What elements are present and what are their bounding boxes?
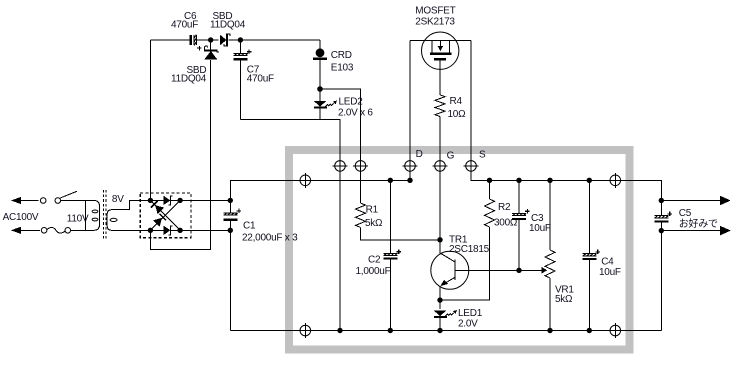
wire C7 stem	[239, 40, 241, 120]
label G	[447, 151, 455, 162]
node bridge BR	[177, 228, 182, 233]
wire bridge diagonal TL-BR	[150, 200, 180, 230]
node C3-rail junction	[516, 178, 521, 183]
resistor R1	[356, 203, 366, 227]
label 11DQ04 (lower)	[171, 74, 207, 85]
wire C1 column	[230, 180, 305, 330]
wire secondary 8V tap to bridge	[117, 200, 150, 209]
label C6 value	[171, 20, 198, 31]
switch SW (top)	[40, 191, 76, 203]
capacitor C5	[654, 212, 672, 222]
node emitter-R2 junction	[437, 297, 442, 302]
wire bridge BL down and right to SBD return	[150, 60, 210, 250]
terminal 2	[353, 161, 368, 172]
node bottom rail terminal1	[337, 328, 342, 333]
diode bridge top	[164, 196, 173, 205]
label AC100V	[3, 212, 39, 223]
svg-text:R1: R1	[366, 204, 379, 215]
svg-text:2SC1815: 2SC1815	[449, 244, 490, 255]
output arrow bottom	[720, 226, 731, 236]
diode SBD D2 (horizontal)	[220, 34, 230, 47]
node CRD-LED2 junction	[317, 86, 323, 92]
svg-text:10uF: 10uF	[599, 267, 621, 278]
node doubler junction 1	[208, 37, 213, 42]
svg-text:22,000uF x 3: 22,000uF x 3	[242, 233, 298, 244]
svg-text:8V: 8V	[112, 194, 124, 205]
node D-rail junction	[407, 178, 412, 183]
node C2-rail junction	[388, 178, 393, 183]
label C3 value	[529, 223, 551, 234]
wire TR1 base to VR1 wiper	[455, 267, 547, 274]
wire AC bottom lead	[20, 229, 40, 231]
terminal right top	[610, 173, 621, 188]
fuse F (bottom)	[41, 228, 70, 234]
node bridge BL	[148, 228, 153, 233]
label C6	[184, 11, 197, 22]
svg-text:C1: C1	[243, 221, 256, 232]
svg-text:G: G	[447, 151, 455, 162]
capacitor C6	[191, 35, 202, 51]
capacitor C7	[234, 50, 252, 60]
svg-text:C5: C5	[679, 208, 692, 219]
diode bridge diagonal lower	[153, 214, 166, 227]
node R1-gate junction	[437, 237, 442, 242]
svg-text:LED2: LED2	[339, 97, 364, 108]
label C7 value	[247, 74, 274, 85]
terminal right bottom	[610, 323, 621, 338]
svg-text:D: D	[416, 149, 423, 160]
wire fuse to transformer	[71, 229, 86, 231]
label LED1 value	[458, 319, 478, 330]
svg-text:11DQ04: 11DQ04	[210, 20, 246, 31]
diode SBD D1 (vertical, pointing up)	[204, 46, 219, 60]
label CRD	[331, 50, 352, 61]
label LED2	[339, 97, 364, 108]
label C5 note	[679, 218, 718, 230]
wire C3 column	[518, 180, 520, 270]
label R1 value	[365, 218, 383, 229]
node C5 bottom	[659, 228, 664, 233]
wire MOSFET drain down to D	[409, 41, 411, 181]
transformer T1 core	[104, 190, 106, 241]
label SBD (top)	[213, 11, 233, 22]
label TR1	[449, 234, 468, 245]
label C1	[243, 221, 256, 232]
node C1 top	[228, 198, 233, 203]
svg-text:C2: C2	[368, 254, 381, 265]
node bottom rail C4	[587, 328, 592, 333]
bridge rectifier dashed box	[140, 193, 191, 238]
wire CRD stem	[319, 40, 321, 49]
wire output bottom lead	[661, 230, 720, 232]
node bottom rail LED1	[437, 328, 442, 333]
wire MOSFET source down to S	[471, 41, 615, 181]
label R4	[450, 96, 463, 107]
label 2SC1815	[449, 244, 490, 255]
transformer T1 primary winding	[85, 201, 99, 231]
label 11DQ04 (top)	[210, 20, 246, 31]
wire output top lead	[661, 200, 720, 202]
label LED1	[458, 308, 483, 319]
AC input arrow top	[11, 197, 21, 204]
MOSFET U1 2SK2173	[410, 32, 471, 95]
label C5	[679, 208, 692, 219]
svg-text:470uF: 470uF	[247, 74, 274, 85]
node bridge TR	[177, 198, 182, 203]
wire switch to transformer	[61, 200, 86, 202]
label C1 value	[242, 233, 298, 244]
node VR1-rail junction	[547, 178, 552, 183]
label VR1 value	[555, 294, 573, 305]
terminal D	[403, 161, 418, 172]
label C4 value	[599, 267, 621, 278]
svg-text:5kΩ: 5kΩ	[365, 218, 383, 229]
wire bridge bottom segment	[150, 229, 230, 231]
label 2SK2173	[415, 16, 455, 27]
svg-text:1,000uF: 1,000uF	[356, 266, 391, 277]
wire C2 column	[389, 180, 391, 330]
node doubler junction 2	[238, 37, 243, 42]
wire SBD D1 stem	[210, 40, 212, 50]
capacitor C3	[512, 209, 530, 219]
wire bridge diagonal BL-TR	[150, 200, 180, 230]
amplifier block gray frame	[289, 150, 630, 350]
label 110V	[67, 214, 89, 225]
label E103	[331, 63, 354, 74]
wire R1 bottom to gate column	[361, 227, 441, 239]
svg-text:E103: E103	[331, 63, 354, 74]
capacitor C4	[582, 250, 600, 259]
node C1 bottom	[228, 228, 233, 233]
label C3	[531, 213, 544, 224]
terminal S	[464, 161, 479, 172]
wire doubler top row	[150, 39, 320, 41]
node C5 top	[659, 198, 664, 203]
wire secondary bottom to bridge	[117, 229, 150, 231]
label 8V	[112, 194, 124, 205]
node C4-rail junction	[587, 178, 592, 183]
diode bridge bottom	[164, 226, 173, 235]
wire junction to terminal 2	[320, 89, 361, 203]
svg-text:11DQ04: 11DQ04	[171, 74, 207, 85]
node bottom rail C2	[388, 328, 393, 333]
svg-text:CRD: CRD	[331, 50, 352, 61]
wire bottom rail left feed	[230, 330, 305, 332]
wire bridge top segment	[150, 199, 230, 201]
svg-text:C4: C4	[601, 256, 614, 267]
wire bridge TL up to doubler row	[149, 40, 151, 200]
svg-text:AC100V: AC100V	[3, 212, 39, 223]
terminal G	[433, 161, 448, 172]
label LED2 value	[338, 107, 373, 118]
capacitor C2	[383, 250, 401, 259]
wire bottom rail	[305, 330, 615, 332]
transistor TR1 2SC1815	[431, 240, 469, 309]
label R4 value	[448, 109, 467, 120]
wire output column C5	[615, 180, 661, 330]
label R2 value	[494, 217, 518, 228]
svg-text:S: S	[479, 150, 486, 161]
node bridge TL	[148, 198, 153, 203]
node bottom rail VR1	[547, 328, 552, 333]
node C3-base junction	[516, 268, 521, 273]
svg-text:2.0V x 6: 2.0V x 6	[338, 107, 373, 118]
label C2 value	[356, 266, 391, 277]
terminal 1	[333, 161, 348, 172]
svg-text:R4: R4	[450, 96, 463, 107]
svg-text:470uF: 470uF	[171, 20, 198, 31]
CRD E103	[313, 48, 327, 89]
resistor VR1	[545, 180, 555, 330]
node R2-rail junction	[487, 178, 492, 183]
svg-text:LED1: LED1	[458, 308, 483, 319]
svg-text:10Ω: 10Ω	[448, 109, 467, 120]
label MOSFET	[415, 5, 455, 16]
resistor R2	[440, 180, 495, 300]
LED1	[434, 310, 457, 331]
terminal left top	[300, 173, 311, 188]
wire LED2 cathode row to terminal 1	[240, 107, 340, 331]
label C2	[368, 254, 381, 265]
label SBD (lower)	[187, 65, 207, 76]
capacitor C1	[224, 209, 242, 220]
label VR1	[555, 284, 574, 295]
label S	[479, 150, 486, 161]
label C4	[601, 256, 614, 267]
wire left rail	[305, 179, 410, 181]
wire C4 column	[588, 180, 590, 330]
svg-text:2.0V: 2.0V	[458, 319, 478, 330]
label R2	[498, 202, 511, 213]
svg-text:2SK2173: 2SK2173	[415, 16, 455, 27]
svg-text:MOSFET: MOSFET	[415, 5, 455, 16]
output arrow top	[720, 196, 731, 206]
svg-text:R2: R2	[498, 202, 511, 213]
transformer T1 secondary winding	[107, 210, 117, 231]
svg-text:お好みで: お好みで	[679, 218, 718, 230]
terminal left bottom	[300, 323, 311, 338]
diode bridge diagonal upper	[151, 201, 164, 214]
wire AC top lead	[20, 200, 38, 202]
label C7	[247, 65, 260, 76]
label R1	[366, 204, 379, 215]
AC input arrow bottom	[11, 227, 21, 234]
label D	[416, 149, 423, 160]
LED2	[314, 89, 337, 108]
resistor R4	[435, 95, 445, 240]
svg-text:5kΩ: 5kΩ	[555, 294, 573, 305]
svg-text:10uF: 10uF	[529, 223, 551, 234]
